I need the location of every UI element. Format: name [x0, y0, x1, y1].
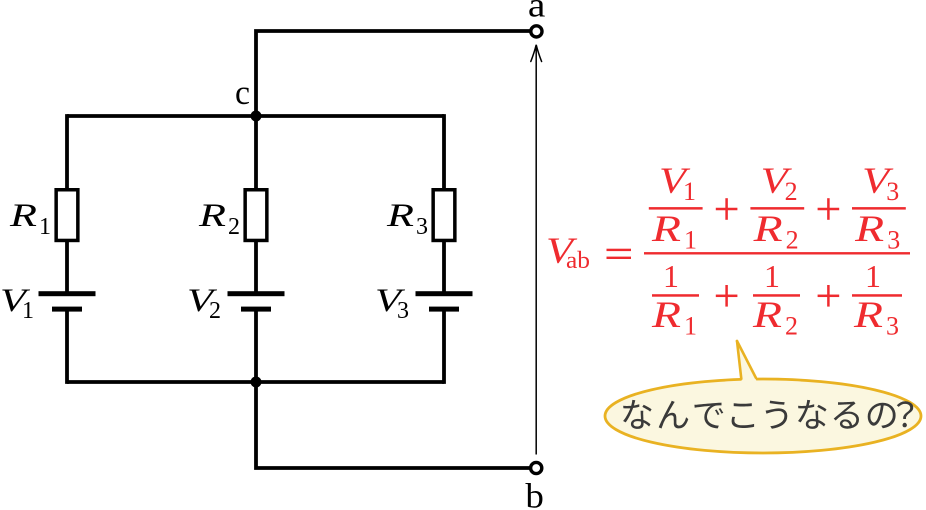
wire branch2 middle — [254, 241, 258, 293]
svg-text:a: a — [528, 0, 546, 25]
formula plus num1 — [716, 198, 738, 220]
wire branch2 lower — [254, 310, 258, 384]
svg-text:1: 1 — [39, 214, 51, 240]
formula numerator V1/R1 — [649, 161, 703, 255]
wire branch1 middle — [65, 241, 69, 293]
battery label V1 — [0, 283, 34, 324]
resistor R3 — [433, 190, 455, 241]
svg-text:R: R — [854, 209, 884, 250]
arrow Vab head — [531, 45, 542, 62]
resistor label R1 — [9, 198, 51, 240]
svg-text:c: c — [235, 73, 250, 112]
formula plus den1 — [716, 285, 738, 307]
formula plus num2 — [818, 198, 840, 220]
svg-text:R: R — [853, 295, 883, 336]
svg-text:b: b — [525, 477, 544, 510]
formula plus den2 — [818, 285, 840, 307]
formula Vab equation (red) — [546, 161, 910, 341]
svg-text:2: 2 — [209, 298, 221, 324]
svg-text:1: 1 — [663, 258, 679, 294]
wire branch3 upper — [442, 114, 446, 189]
battery label V2 — [187, 283, 221, 324]
formula numerator V2/R2 — [750, 161, 804, 255]
wire junction to terminal b — [256, 382, 530, 468]
arrow Vab shaft — [535, 46, 537, 455]
wire branch3 middle — [442, 241, 446, 293]
svg-text:R: R — [651, 209, 681, 250]
wire branch1 upper — [65, 114, 69, 189]
svg-text:3: 3 — [397, 298, 409, 324]
svg-text:ab: ab — [566, 248, 590, 274]
svg-text:R: R — [9, 198, 37, 234]
wire branch3 lower — [442, 310, 446, 384]
resistor label R3 — [386, 198, 428, 240]
speech bubble tail fill — [737, 341, 758, 384]
svg-text:2: 2 — [785, 177, 798, 206]
formula denominator 1/R3 — [852, 258, 902, 341]
svg-text:1: 1 — [683, 177, 696, 206]
svg-text:1: 1 — [22, 298, 34, 324]
battery V2 — [228, 291, 285, 311]
svg-text:1: 1 — [684, 312, 697, 341]
battery V3 — [416, 291, 473, 311]
svg-text:3: 3 — [886, 312, 899, 341]
resistor label R2 — [198, 198, 240, 240]
formula denominator 1/R1 — [651, 258, 699, 341]
svg-text:2: 2 — [786, 226, 799, 255]
svg-text:1: 1 — [865, 258, 881, 294]
node c junction dot — [251, 111, 262, 122]
svg-text:3: 3 — [416, 214, 428, 240]
wire node c to terminal a — [256, 31, 530, 116]
wire top rail c-row — [67, 114, 444, 118]
bottom junction dot — [251, 377, 262, 388]
terminal a — [531, 26, 542, 37]
formula main fraction bar — [644, 252, 910, 254]
speech bubble ellipse — [605, 379, 921, 453]
svg-text:R: R — [386, 198, 414, 234]
battery V1 — [39, 291, 96, 311]
svg-text:R: R — [752, 295, 782, 336]
wire branch2 upper — [254, 114, 258, 189]
resistor R2 — [245, 190, 267, 241]
svg-text:3: 3 — [886, 177, 899, 206]
speech bubble tail right edge — [737, 341, 756, 378]
svg-text:2: 2 — [228, 214, 240, 240]
formula numerator V3/R3 — [852, 161, 906, 255]
svg-text:3: 3 — [887, 226, 900, 255]
formula equals sign — [607, 249, 632, 259]
battery label V3 — [375, 283, 409, 324]
svg-text:1: 1 — [684, 226, 697, 255]
speech bubble text なんでこうなるの？ — [623, 400, 913, 429]
svg-text:R: R — [198, 198, 226, 234]
wire bottom rail — [67, 380, 444, 384]
svg-text:R: R — [752, 209, 782, 250]
svg-text:1: 1 — [764, 258, 780, 294]
formula denominator 1/R2 — [752, 258, 800, 341]
svg-text:R: R — [651, 295, 681, 336]
resistor R1 — [56, 190, 78, 241]
speech bubble tail left edge — [737, 341, 741, 379]
formula Vab lhs — [546, 231, 590, 274]
wire branch1 lower — [65, 310, 69, 384]
terminal b — [531, 462, 542, 473]
svg-text:2: 2 — [785, 312, 798, 341]
